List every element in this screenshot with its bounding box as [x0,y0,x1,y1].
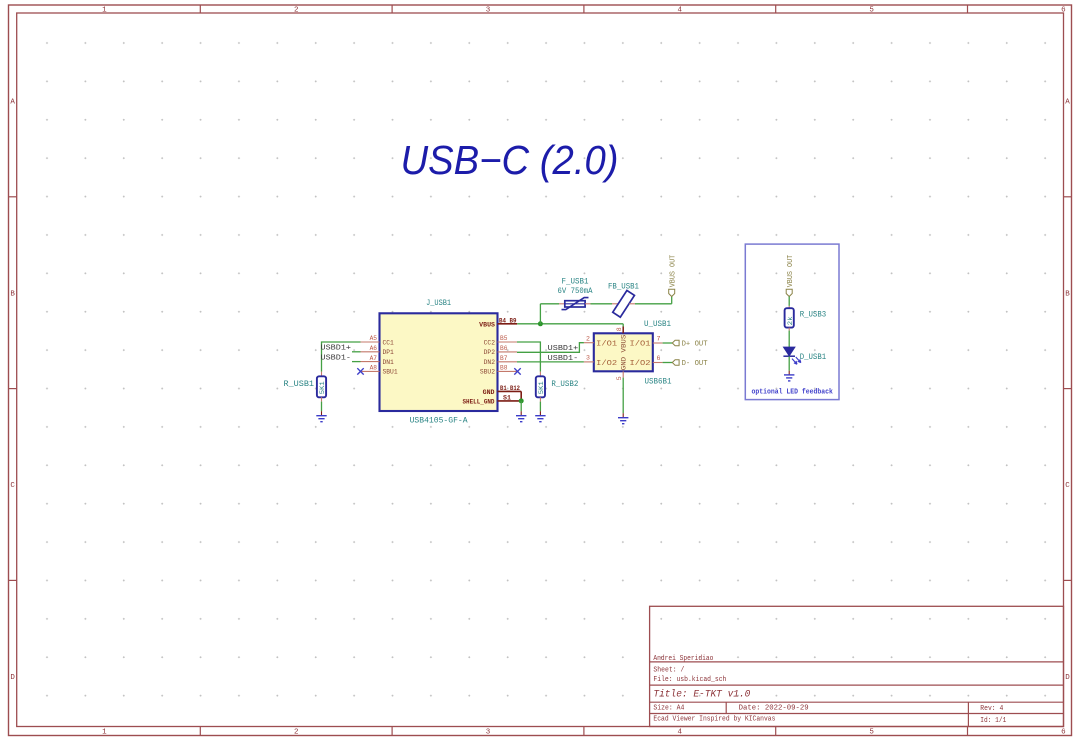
svg-text:D- OUT: D- OUT [682,360,708,368]
svg-text:D: D [1065,674,1070,682]
svg-text:2k: 2k [787,316,795,325]
svg-text:Sheet: /: Sheet: / [653,667,684,675]
svg-text:I/O2: I/O2 [630,360,652,368]
svg-text:USB6B1: USB6B1 [645,378,672,386]
svg-text:2: 2 [294,728,299,736]
svg-text:GND VBUS: GND VBUS [621,335,628,371]
svg-text:B: B [1065,290,1070,298]
svg-text:DP2: DP2 [484,349,496,356]
svg-text:R_USB3: R_USB3 [800,312,827,320]
svg-text:FB_USB1: FB_USB1 [608,283,639,291]
svg-text:I/O2: I/O2 [596,360,618,368]
svg-text:B7: B7 [500,355,508,362]
svg-text:U_USB1: U_USB1 [644,321,671,329]
svg-text:File: usb.kicad_sch: File: usb.kicad_sch [653,676,726,684]
svg-text:Rev: 4: Rev: 4 [980,705,1003,713]
svg-text:3: 3 [486,7,491,15]
svg-text:Id: 1/1: Id: 1/1 [980,717,1006,725]
svg-text:A: A [1065,99,1070,107]
svg-text:B5: B5 [500,335,508,342]
svg-text:1: 1 [102,7,107,15]
svg-text:5: 5 [616,376,623,380]
svg-text:6: 6 [1061,728,1066,736]
svg-text:Date: 2022-09-29: Date: 2022-09-29 [739,704,809,712]
svg-text:F_USB1: F_USB1 [562,279,589,287]
svg-text:A5: A5 [370,335,378,342]
svg-text:J_USB1: J_USB1 [426,300,451,308]
svg-text:4: 4 [678,7,683,15]
svg-text:Andrei Speridiao: Andrei Speridiao [653,655,713,663]
svg-text:USBD1-: USBD1- [548,355,579,363]
svg-text:DP1: DP1 [383,349,395,356]
svg-text:5: 5 [869,7,874,15]
svg-text:B: B [10,290,15,298]
svg-text:VBUS OUT: VBUS OUT [669,255,677,288]
svg-text:DN1: DN1 [383,359,395,366]
svg-text:USBD1+: USBD1+ [321,345,352,353]
svg-text:B6: B6 [500,345,508,352]
svg-text:R_USB1: R_USB1 [284,381,315,389]
svg-text:C: C [10,482,15,490]
svg-text:A: A [10,99,15,107]
svg-text:SBU2: SBU2 [480,369,495,376]
svg-text:CC1: CC1 [383,339,395,346]
svg-text:A6: A6 [370,345,378,352]
svg-text:1: 1 [102,728,107,736]
svg-text:Ecad Viewer Inspired by KICanv: Ecad Viewer Inspired by KICanvas [653,716,775,724]
svg-text:GND: GND [483,389,495,396]
svg-text:2: 2 [586,335,590,342]
svg-text:USB−C (2.0): USB−C (2.0) [401,137,619,183]
svg-text:R_USB2: R_USB2 [551,381,578,389]
svg-text:4: 4 [678,728,683,736]
svg-text:USBD1-: USBD1- [321,354,352,362]
svg-text:optional LED feedback: optional LED feedback [751,388,833,396]
svg-text:8: 8 [616,327,623,331]
svg-text:D_USB1: D_USB1 [800,354,827,362]
svg-text:5K1: 5K1 [319,381,327,394]
svg-text:VBUS OUT: VBUS OUT [787,255,795,288]
svg-text:6V 750mA: 6V 750mA [558,288,593,296]
svg-text:7: 7 [657,336,661,343]
svg-text:USB4105-GF-A: USB4105-GF-A [410,417,468,426]
svg-text:3: 3 [586,355,590,362]
svg-text:A7: A7 [370,355,378,362]
svg-text:USBD1+: USBD1+ [548,345,579,353]
svg-text:S1: S1 [503,395,511,402]
svg-text:D: D [10,674,15,682]
svg-text:Size: A4: Size: A4 [653,704,684,712]
svg-text:SBU1: SBU1 [383,369,398,376]
svg-text:5K1: 5K1 [538,381,546,394]
svg-text:2: 2 [294,7,299,15]
svg-text:VBUS: VBUS [479,321,495,328]
svg-text:B4_B9: B4_B9 [499,317,517,324]
svg-text:Title: E-TKT v1.0: Title: E-TKT v1.0 [653,689,750,701]
svg-text:DN2: DN2 [484,359,496,366]
svg-text:I/O1: I/O1 [630,340,652,348]
svg-text:B8: B8 [500,365,508,372]
svg-text:D+ OUT: D+ OUT [682,340,708,348]
svg-text:6: 6 [657,355,661,362]
svg-text:SHELL_GND: SHELL_GND [463,398,495,405]
svg-text:A8: A8 [370,365,378,372]
svg-text:CC2: CC2 [484,339,496,346]
svg-text:C: C [1065,482,1070,490]
svg-text:I/O1: I/O1 [596,340,618,348]
svg-text:6: 6 [1061,7,1066,15]
svg-text:5: 5 [869,728,874,736]
svg-text:3: 3 [486,728,491,736]
svg-text:B1_B12: B1_B12 [500,385,520,392]
